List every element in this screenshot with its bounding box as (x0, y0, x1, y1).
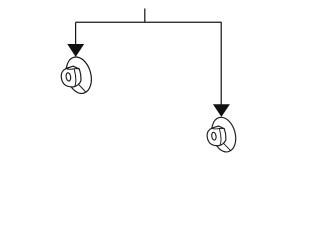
arrowhead left (68, 44, 84, 56)
wire: center tick (144, 9, 146, 23)
wire: horizontal header line (76, 21, 222, 23)
wire: left drop line (75, 22, 77, 45)
flange nut left (61, 54, 95, 96)
wire: right drop line (220, 22, 222, 105)
arrowhead right (214, 105, 230, 117)
flange nut right (207, 115, 239, 155)
